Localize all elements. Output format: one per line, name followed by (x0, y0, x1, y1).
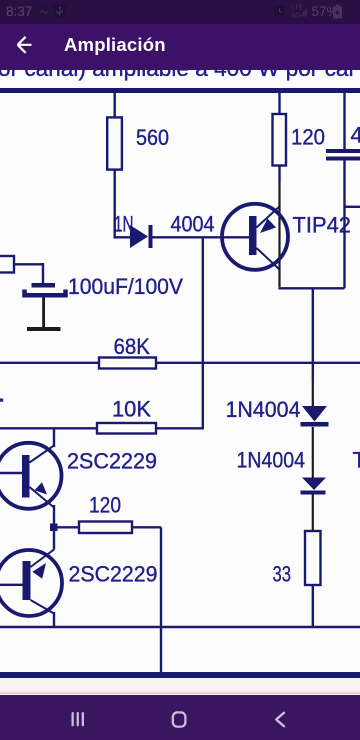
svg-text:4G: 4G (291, 13, 300, 20)
svg-text:68K: 68K (114, 334, 151, 359)
svg-text:8:37: 8:37 (6, 4, 32, 19)
svg-text:TIP41: TIP41 (353, 448, 360, 473)
svg-text:560: 560 (136, 125, 169, 150)
svg-text:120: 120 (291, 125, 325, 150)
svg-text:LTE: LTE (291, 5, 304, 12)
svg-text:4004: 4004 (171, 212, 215, 237)
svg-text:10K: 10K (112, 397, 151, 422)
svg-text:2SC2229: 2SC2229 (67, 449, 157, 474)
svg-text:2SC2229: 2SC2229 (69, 562, 158, 587)
svg-text:100uF/100V: 100uF/100V (68, 274, 183, 299)
svg-text:120: 120 (89, 493, 121, 518)
svg-text:33: 33 (273, 562, 292, 587)
svg-text:4: 4 (351, 123, 360, 148)
svg-text:1N4004: 1N4004 (226, 397, 301, 422)
svg-text:TIP42: TIP42 (293, 213, 352, 238)
svg-text:1N4004: 1N4004 (237, 448, 306, 473)
